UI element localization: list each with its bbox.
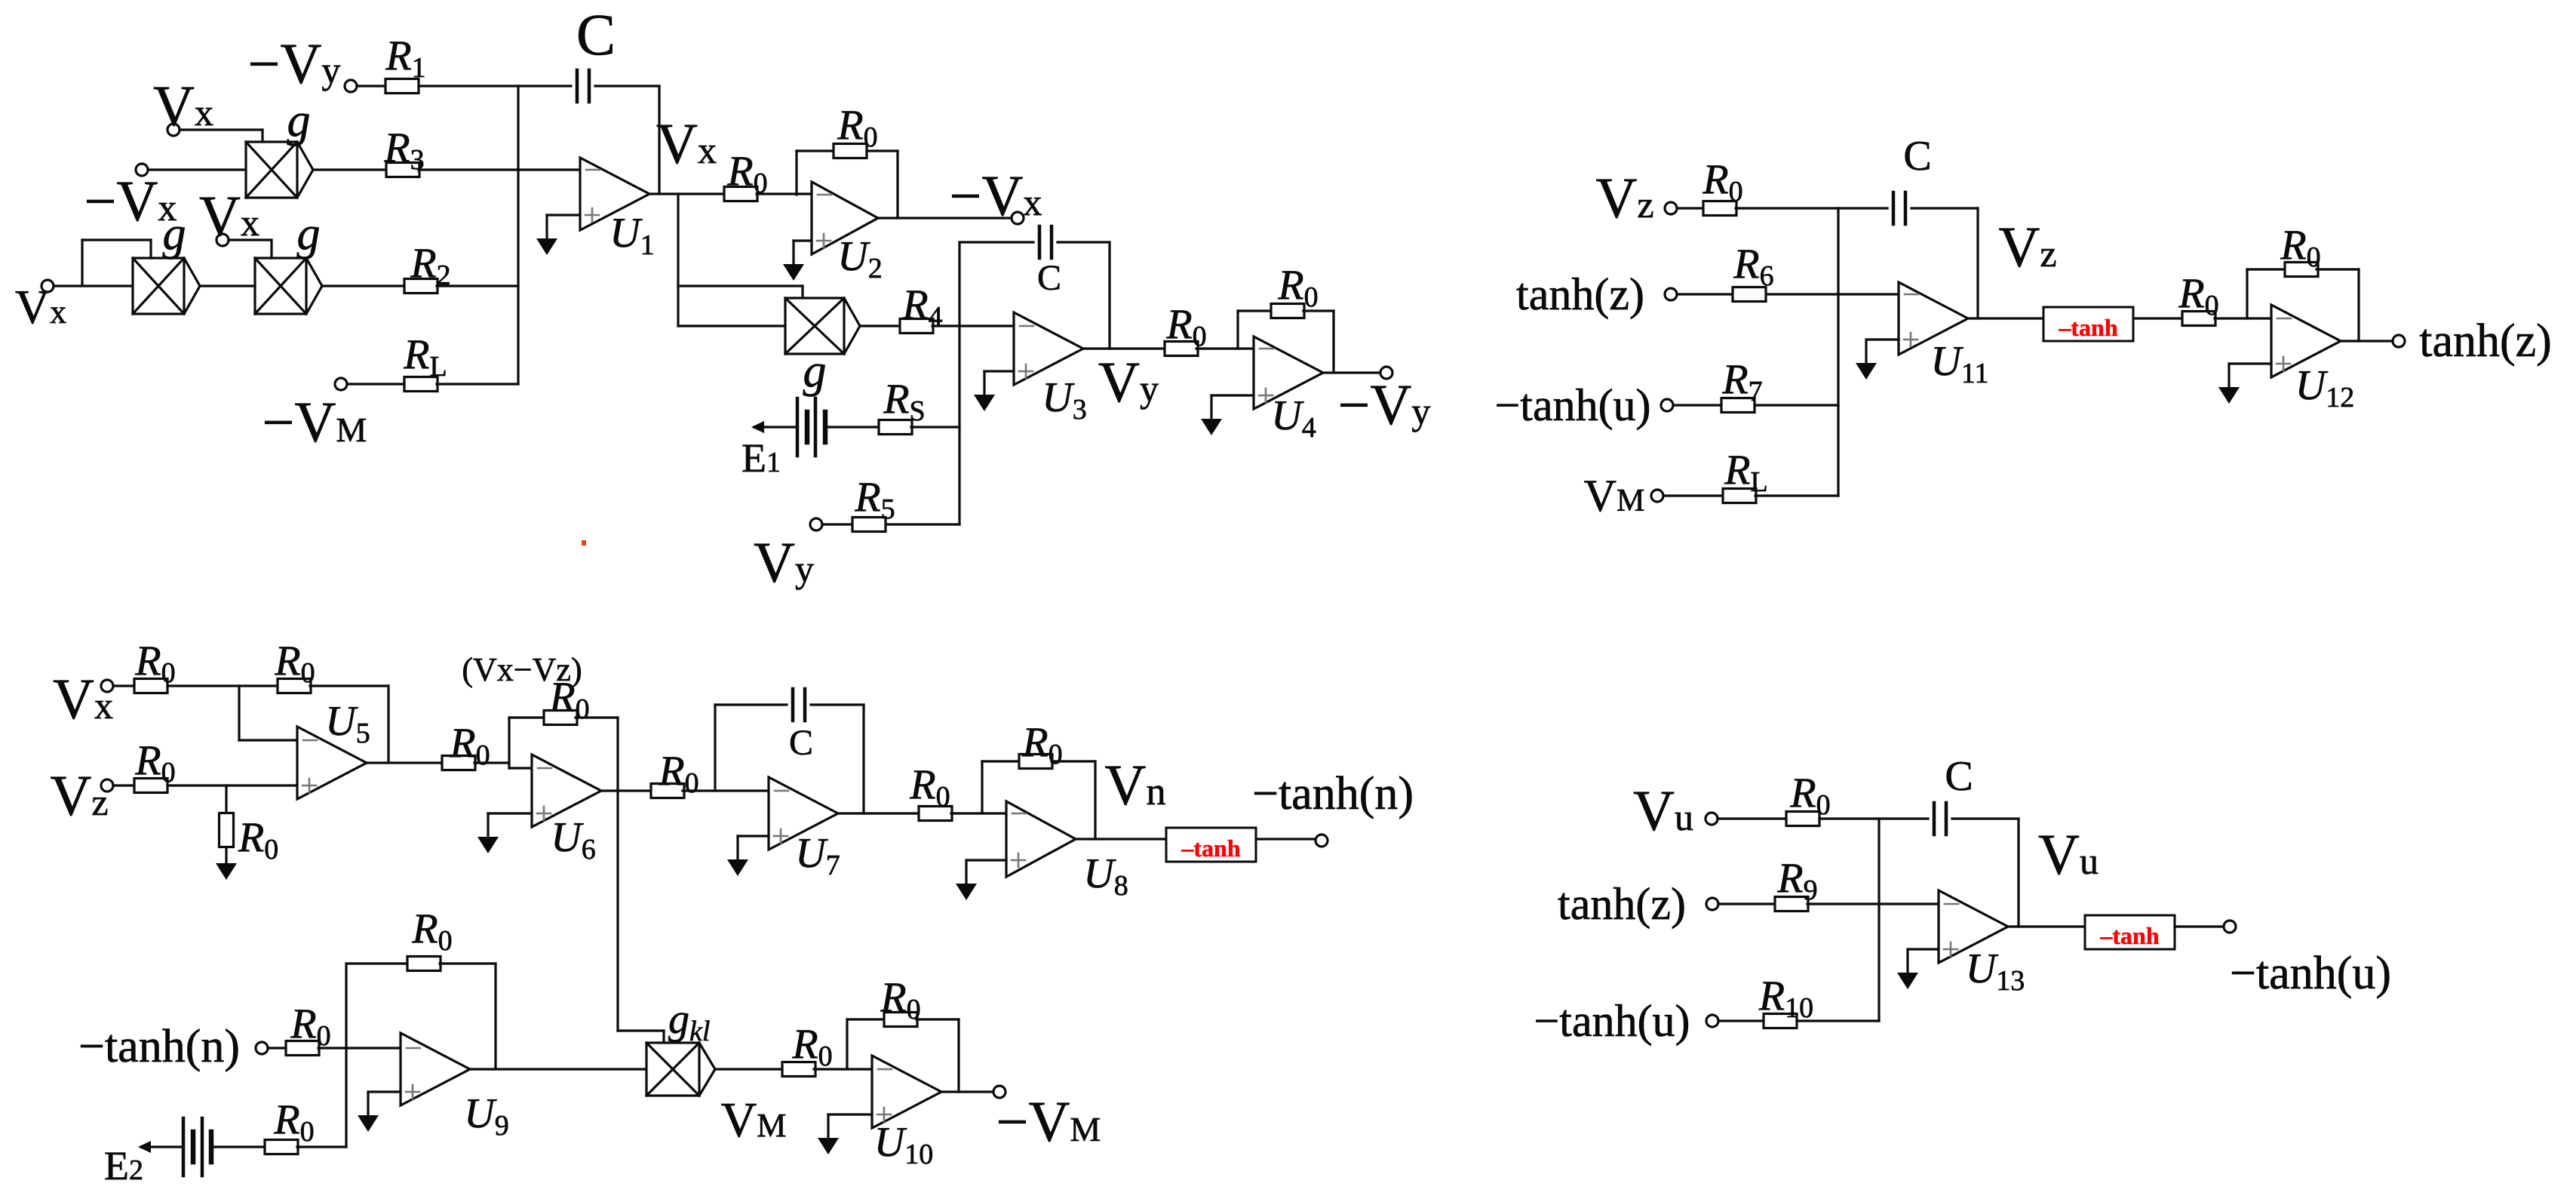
svg-text:g: g — [297, 208, 321, 260]
svg-text:(Vx−Vz): (Vx−Vz) — [462, 651, 582, 688]
svg-text:C: C — [1945, 753, 1973, 800]
svg-text:−tanh(u): −tanh(u) — [1534, 996, 1690, 1046]
svg-text:−tanh(n): −tanh(n) — [1252, 768, 1414, 819]
svg-text:−tanh(u): −tanh(u) — [2230, 948, 2391, 999]
svg-text:tanh(z): tanh(z) — [1558, 879, 1686, 929]
svg-text:–tanh: –tanh — [2058, 314, 2117, 341]
svg-text:–tanh: –tanh — [1181, 835, 1240, 862]
svg-text:tanh(z): tanh(z) — [2419, 315, 2552, 367]
svg-text:C: C — [789, 723, 813, 763]
svg-text:g: g — [163, 208, 186, 260]
svg-text:−tanh(u): −tanh(u) — [1494, 380, 1650, 430]
svg-text:C: C — [576, 2, 616, 67]
svg-text:tanh(z): tanh(z) — [1516, 269, 1644, 319]
svg-text:–tanh: –tanh — [2099, 922, 2159, 949]
svg-text:C: C — [1037, 258, 1061, 298]
svg-text:C: C — [1903, 133, 1931, 180]
svg-text:g: g — [287, 95, 311, 146]
svg-text:−tanh(n): −tanh(n) — [78, 1021, 240, 1072]
svg-text:g: g — [803, 346, 827, 397]
